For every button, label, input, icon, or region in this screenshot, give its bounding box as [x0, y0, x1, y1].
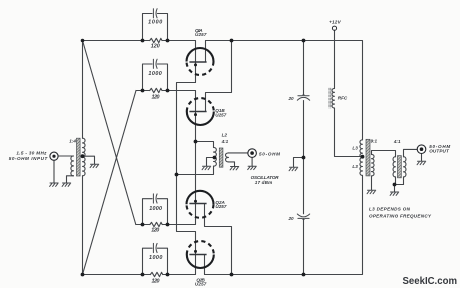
wire T4 bottom tie	[394, 184, 404, 186]
inductor L2 left winding	[214, 147, 217, 166]
resistor R1 120	[150, 38, 162, 42]
transformer T3 core	[366, 139, 370, 176]
svg-text:50-OHM: 50-OHM	[259, 151, 280, 156]
wire T3 right top to T4 left top	[372, 151, 396, 157]
transformer T4 left winding	[393, 157, 395, 177]
svg-text:1:4: 1:4	[69, 139, 76, 144]
node T1 center tap	[81, 154, 85, 158]
svg-text:RFC: RFC	[338, 95, 348, 100]
transformer T3 right winding	[372, 154, 375, 176]
node Q1A internal source dot	[194, 63, 197, 66]
wire input connector to ground	[53, 160, 55, 182]
wire L2 bottom return to Q1A source line	[177, 166, 214, 174]
node RC2 left	[141, 89, 145, 93]
transistor Q1B U257 circle	[187, 112, 214, 126]
capacitor C1 1000 box	[143, 14, 153, 41]
wire L2 top tap from channel line	[196, 142, 214, 148]
connector J3 RF output	[417, 145, 426, 154]
wire bottom rail right segment to T3 bottom	[205, 175, 363, 274]
svg-text:L3: L3	[352, 164, 358, 169]
wire T4 right bottom	[403, 177, 405, 185]
capacitor C2 1000 box	[143, 64, 153, 91]
wire oscillator connector to ground	[251, 158, 253, 166]
wire Q2A drain staircase to bottom rail	[205, 204, 232, 275]
svg-text:L2: L2	[222, 133, 228, 138]
terminal +12V	[332, 26, 336, 30]
node RC1 right	[166, 39, 170, 43]
wire T3 right bottom to ground	[371, 176, 373, 190]
svg-text:1000: 1000	[149, 206, 162, 212]
svg-text:U257: U257	[215, 112, 226, 117]
wire T1 center tap to ground	[83, 156, 95, 164]
svg-text:U257: U257	[195, 282, 207, 287]
node bypass cap on top rail	[302, 39, 306, 43]
wire output connector to ground	[421, 154, 423, 161]
svg-text:+12V: +12V	[329, 19, 341, 24]
svg-text:9:1: 9:1	[370, 138, 377, 143]
svg-text:L3: L3	[352, 145, 358, 150]
svg-text:L3 DEPENDS ON: L3 DEPENDS ON	[369, 207, 411, 212]
Q1A gate bar	[189, 61, 206, 63]
wire L2 to oscillator connector	[229, 152, 248, 154]
node bypass cap on bottom rail	[302, 273, 306, 277]
capacitor C4 1000 box	[143, 248, 153, 274]
svg-text:4:1: 4:1	[221, 139, 229, 144]
node L2 center tap	[213, 156, 217, 160]
wire Q1A source staircase down to Q2B gate	[177, 83, 196, 275]
svg-text:4:1: 4:1	[393, 139, 401, 144]
wire RFC to T3 center tap	[335, 108, 363, 157]
node top-left corner	[81, 39, 85, 43]
wire between bypass caps	[303, 101, 305, 214]
svg-text:120: 120	[151, 44, 160, 50]
resistor R2 120	[150, 88, 162, 92]
wire T1 secondary top to top rail corner	[83, 41, 150, 139]
wire rail to Q2B channel bottom	[163, 274, 196, 276]
wire row to Q1B gate corner	[162, 91, 196, 225]
node Q2A drain on bottom rail	[230, 273, 234, 277]
svg-text:17 dBm: 17 dBm	[255, 180, 273, 185]
wire +12V terminal lead crossing rail	[334, 30, 336, 88]
svg-text:1000: 1000	[148, 71, 161, 77]
svg-text:120: 120	[151, 228, 159, 234]
wire input connector to T1 primary	[58, 155, 73, 157]
svg-text:120: 120	[152, 279, 160, 285]
wire diagonal from bottom corner to Q1B row	[83, 91, 137, 275]
svg-text:50-OHM INPUT: 50-OHM INPUT	[9, 156, 49, 161]
node mid ground stub	[302, 156, 306, 160]
node Q1B drain riser on top rail	[230, 39, 234, 43]
wire T4 right top to output connector	[404, 149, 418, 156]
wire row to Q2A gate corner	[162, 224, 195, 226]
node RC4 right	[166, 273, 170, 277]
node L2 bottom on Q1A source line	[175, 173, 179, 177]
svg-text:20: 20	[287, 216, 294, 221]
wire mid ground stub	[294, 158, 304, 168]
node RC2 right	[166, 89, 170, 93]
connector J2 oscillator input	[248, 149, 257, 158]
transformer L2 core	[219, 148, 223, 167]
svg-text:SeekIC.com: SeekIC.com	[403, 276, 458, 287]
wire top rail right segment to T3 top	[206, 41, 363, 140]
Q2B gate bar	[189, 254, 206, 256]
svg-text:20: 20	[287, 96, 294, 101]
wire T4 left bottom	[395, 177, 397, 185]
transformer T1 primary winding	[71, 156, 74, 176]
wire rail to Q1A gate corner	[162, 41, 196, 83]
resistor R3 120	[150, 222, 162, 226]
wire T1 primary bottom to ground	[67, 176, 74, 183]
node bottom-left corner	[81, 273, 85, 277]
node Q1B internal source dot	[194, 113, 197, 116]
svg-text:OPERATING FREQUENCY: OPERATING FREQUENCY	[369, 214, 432, 219]
svg-text:OUTPUT: OUTPUT	[429, 148, 450, 153]
node T4 ground	[393, 183, 397, 187]
node Q2A internal source dot	[194, 200, 197, 203]
connector J1 RF input	[50, 152, 58, 160]
wire L2 center tap to ground	[207, 158, 215, 167]
wire Q1B drain riser to rail	[206, 41, 232, 112]
node Q2B internal source dot	[194, 250, 197, 253]
wire Q2B drain lead to bottom rail	[204, 255, 206, 275]
node L2 top tap	[194, 140, 198, 144]
wire T1 secondary bottom to bottom rail left	[83, 176, 151, 275]
svg-text:1.5 - 30 MHz: 1.5 - 30 MHz	[16, 150, 47, 155]
wire L2 right bottom to ground	[229, 162, 235, 166]
transistor Q2A U257 circle	[187, 191, 214, 205]
inductor L2 right winding	[226, 153, 229, 162]
transformer T3 left winding L3	[360, 140, 363, 176]
transistor Q2B U257 circle	[187, 255, 214, 269]
wire bypass cap to bottom rail	[303, 219, 305, 275]
wire top rail to bypass cap 20	[303, 41, 305, 96]
Q2A gate bar	[189, 203, 206, 205]
transformer T1 core	[77, 138, 81, 176]
svg-text:1000: 1000	[149, 255, 162, 261]
wire Q1A drain lead	[205, 41, 207, 63]
transformer T1 secondary winding	[83, 138, 86, 176]
transistor Q1A U257 circle	[187, 48, 214, 61]
resistor R4 120	[150, 272, 162, 276]
node RC1 left	[141, 39, 145, 43]
wire Q1B gate row from diagonal bend	[136, 90, 150, 92]
svg-text:U257: U257	[195, 32, 207, 37]
inductor RFC	[332, 88, 334, 108]
node RC3 left	[141, 223, 145, 227]
svg-text:120: 120	[152, 95, 160, 101]
node T3 center tap	[361, 155, 365, 159]
wire Q2A gate row from diagonal bend	[136, 224, 150, 226]
node RC3 right	[166, 223, 170, 227]
node RC4 left	[141, 273, 145, 277]
svg-text:U257: U257	[215, 204, 226, 209]
svg-text:1000: 1000	[148, 19, 162, 25]
transformer T4 right winding	[404, 157, 406, 177]
Q1B gate bar	[189, 111, 206, 113]
capacitor C3 1000 box	[143, 199, 153, 225]
RFC core dashed lines	[328, 88, 330, 108]
wire T4 ground lead	[394, 185, 396, 192]
transformer T4 core	[398, 156, 402, 178]
wire diagonal from top corner to Q2A row	[83, 41, 136, 225]
